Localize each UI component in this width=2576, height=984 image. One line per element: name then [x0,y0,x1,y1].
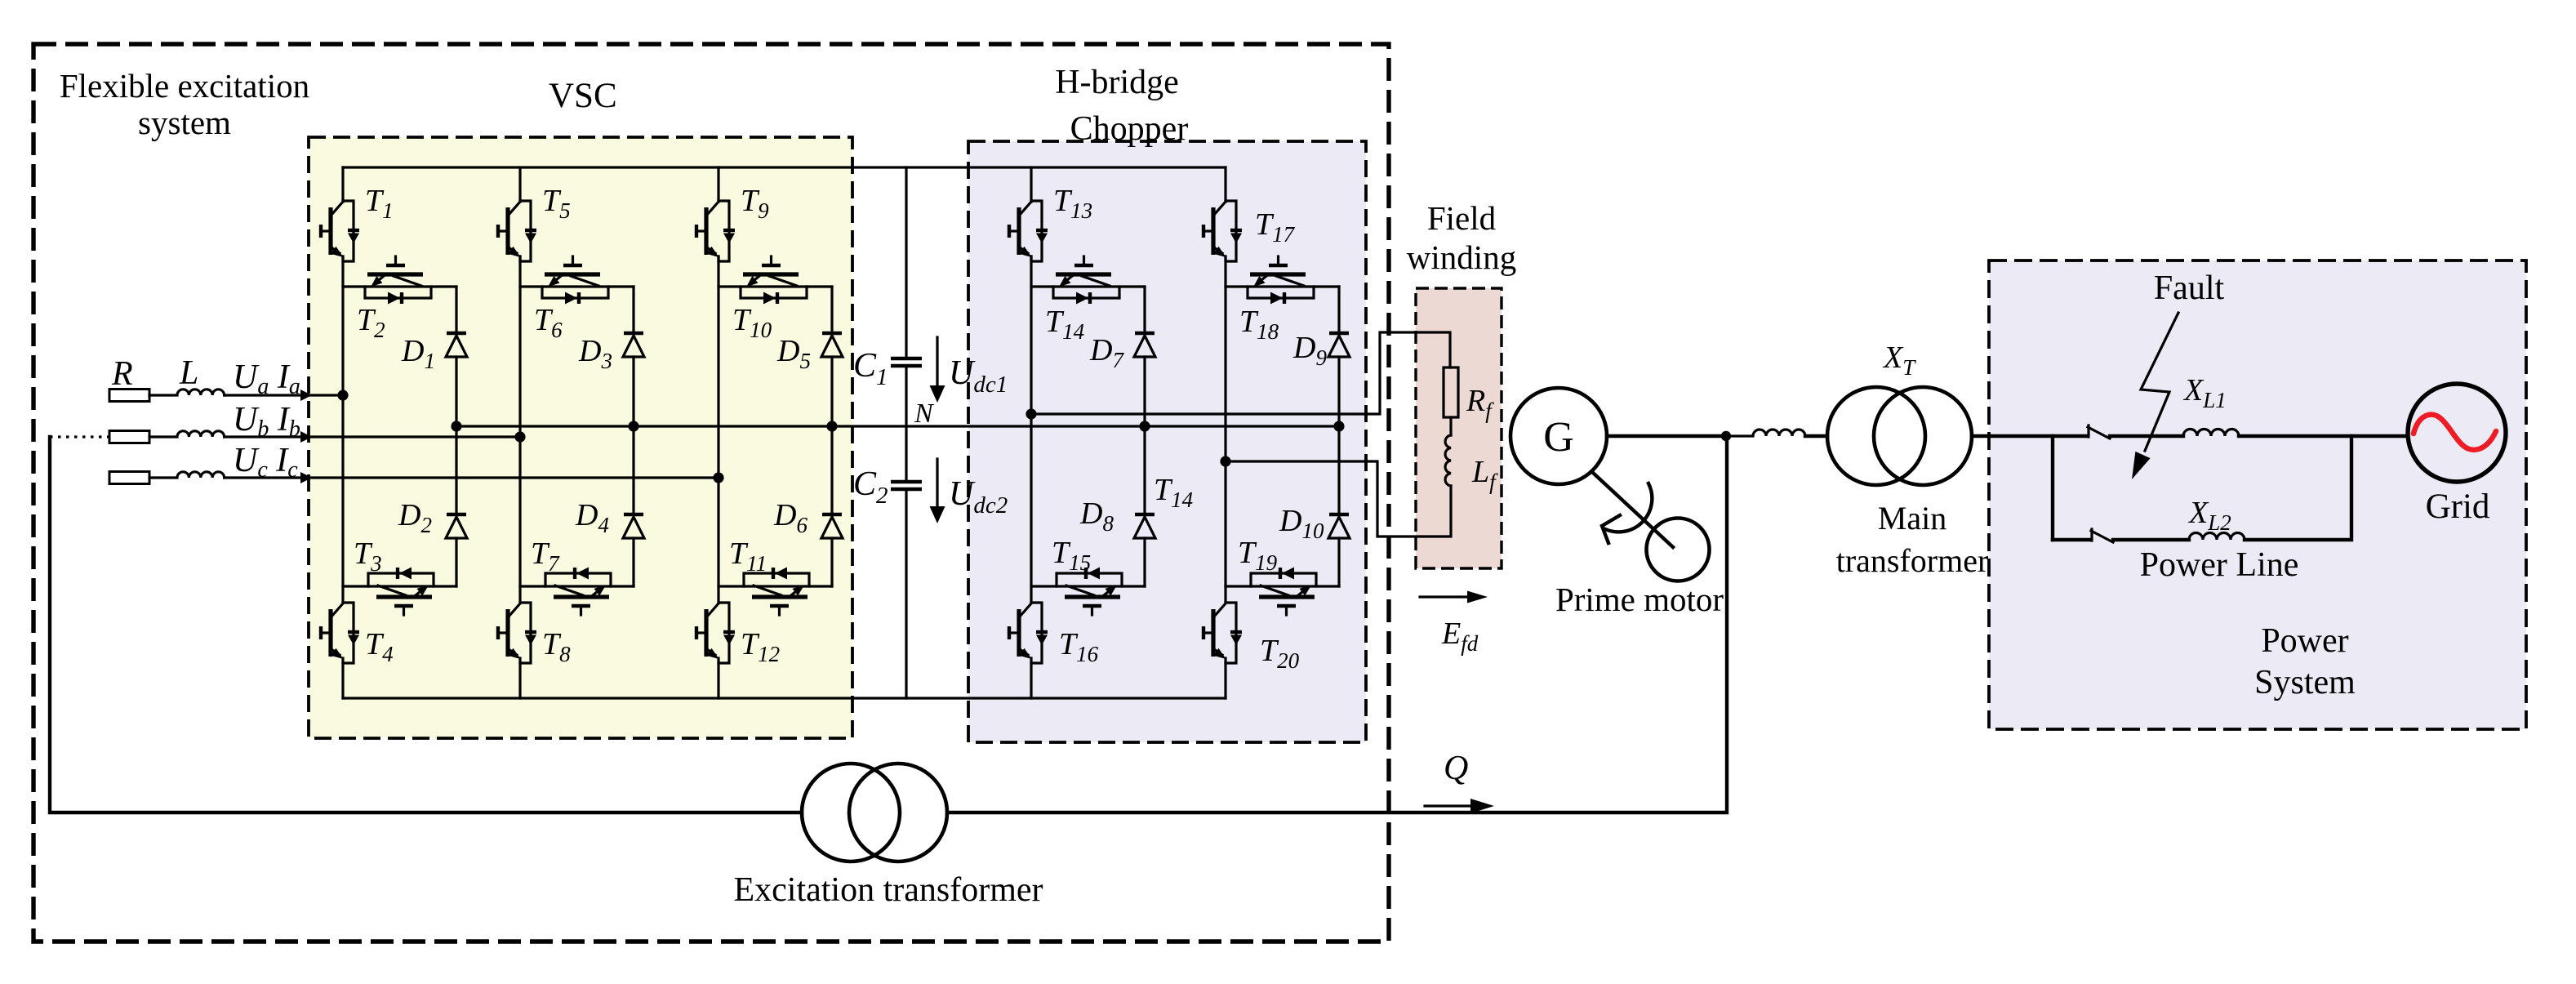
node phase b junction [514,431,525,442]
switch upper [2088,425,2110,439]
prime motor circle [1647,519,1710,581]
H-bridge Chopper box [968,141,1366,742]
wire top DC rail [343,166,1226,168]
diode D7 [1134,333,1155,357]
excitation transformer circle left [802,764,900,862]
svg-text:Grid: Grid [2426,488,2490,526]
diode D10 [1328,514,1350,538]
arrow Efd [1420,595,1469,598]
wire G output [1607,434,1726,438]
wire hleg2 clamp [1337,287,1340,586]
svg-text:Prime motor: Prime motor [1555,581,1724,618]
diode D6 [821,514,843,538]
transistor T3 [343,568,456,616]
svg-text:C2: C2 [853,465,888,509]
transistor T20 [1203,603,1242,663]
transistor T17 [1203,201,1242,261]
generator G circle [1510,388,1607,484]
capacitor C2 [891,482,922,489]
wire XL2 right [2245,436,2351,540]
svg-text:system: system [138,104,231,141]
svg-text:Uc Ic: Uc Ic [233,442,298,483]
resistor R phase a [109,390,149,402]
transistor T2 [343,256,456,305]
diode D3 [623,333,644,357]
fault lightning arrow [2141,313,2178,451]
transistor T18 [1226,256,1339,305]
node lower output junction [1220,456,1230,466]
transistor T16 [1009,603,1048,663]
rotation arrow [1605,483,1652,532]
svg-text:G: G [1543,414,1574,461]
svg-text:Main: Main [1878,500,1946,537]
arrow phase c [300,472,312,483]
svg-text:R: R [111,355,133,393]
node G output junction [1721,431,1731,441]
arrow Q [1425,804,1472,807]
dotted feedback tap [50,435,109,438]
diode D4 [623,514,644,538]
svg-text:L: L [179,354,198,392]
diode D5 [821,333,843,357]
wire capacitor rail [905,167,907,698]
node upper output junction [1026,408,1036,419]
wire bottom DC rail [343,697,1226,699]
transistor T15 [1031,568,1145,616]
transistor T13 [1009,201,1048,261]
inductor L phase a [149,390,225,395]
main transformer circle left [1827,387,1925,485]
resistor Rf [1444,367,1458,417]
arrow Udc2 [936,459,938,509]
diode D8 [1134,514,1155,538]
diode D2 [446,514,467,538]
svg-text:Efd: Efd [1441,617,1479,656]
resistor R phase b [109,431,149,443]
node phase c junction [713,472,723,483]
svg-text:XT: XT [1882,341,1916,380]
wire XL1 left [2110,434,2183,438]
svg-text:N: N [914,398,935,429]
svg-text:Flexible excitation: Flexible excitation [60,67,309,105]
node hleg2 clamp N junction [1333,421,1344,431]
svg-text:Power Line: Power Line [2140,546,2299,584]
wire leg2 clamp [632,287,634,586]
wire lower branch left [2053,538,2090,541]
VSC box [309,137,852,738]
transistor T5 [498,201,536,261]
node leg3 clamp N junction [826,421,837,431]
transistor T1 [321,201,359,261]
transistor T19 [1226,568,1339,616]
capacitor C1 [891,358,922,366]
Flexible excitation system outer box [33,44,1389,942]
wire leg2 rail [518,167,521,698]
transistor T11 [719,568,832,616]
wire hleg1 clamp [1143,287,1146,586]
transistor T14 [1031,256,1145,305]
resistor R phase c [109,472,149,484]
transistor T7 [520,568,634,616]
arrow phase b [300,431,312,443]
inductor Lf [1445,435,1451,486]
node leg2 clamp N junction [628,421,638,431]
switch lower [2091,529,2113,542]
excitation transformer circle right [849,764,947,862]
svg-text:Q: Q [1444,750,1468,787]
svg-text:Fault: Fault [2154,269,2225,307]
wire lower output [1226,461,1451,537]
inductor generator series [1726,430,1805,436]
wire leg1 rail [341,167,344,698]
wire leg3 rail [717,167,719,698]
diode D9 [1328,333,1350,357]
wire phase c [225,476,719,479]
wire hleg2 rail [1224,167,1226,698]
grid source circle [2408,384,2506,482]
inductor L phase c [149,472,225,478]
transistor T10 [719,256,832,305]
inductor L phase b [149,431,225,437]
svg-text:H-bridge: H-bridge [1055,64,1179,101]
wire excitation output [947,436,1727,813]
wire XL2 left [2113,538,2189,541]
wire XL1 right to grid [2239,434,2408,438]
svg-text:VSC: VSC [549,77,617,115]
svg-text:Ub Ib: Ub Ib [233,401,300,442]
wire feedback left drop [50,437,802,813]
svg-text:transformer: transformer [1836,542,1989,579]
transistor T9 [696,201,735,261]
arrow Udc1 [936,337,938,388]
inductor XL2 [2189,533,2245,541]
shaft line [1592,472,1673,547]
transistor T12 [696,603,735,663]
wire inductor to transformer [1805,434,1827,438]
diode D1 [446,333,467,357]
wire phase a [225,394,343,396]
svg-text:Excitation transformer: Excitation transformer [733,871,1043,909]
inductor XL1 [2183,430,2239,437]
transistor T6 [520,256,634,305]
Field winding box [1416,288,1502,568]
grid sine wave [2414,415,2496,450]
svg-text:Field: Field [1427,199,1496,237]
wire leg1 clamp [455,287,457,586]
main transformer circle right [1874,387,1972,485]
svg-text:Chopper: Chopper [1070,110,1189,148]
svg-text:Power: Power [2261,622,2348,660]
Power System box [1989,260,2526,729]
svg-text:C1: C1 [853,347,888,390]
wire Rf to Lf [1449,417,1452,435]
wire hleg1 rail [1030,167,1032,698]
node hleg1 clamp N junction [1139,421,1150,431]
node phase a junction [337,390,348,400]
wire leg3 clamp [830,287,833,586]
svg-text:System: System [2254,664,2356,701]
svg-text:Ua Ia: Ua Ia [233,358,300,399]
wire upper output [1031,332,1450,414]
node line split junction [2051,436,2054,540]
wire phase b [225,435,520,438]
transistor T8 [498,603,536,663]
transistor T4 [321,603,359,663]
arrow phase a [300,390,312,401]
wire neutral N line [456,425,1339,427]
svg-text:winding: winding [1407,238,1516,276]
node leg1 clamp N junction [451,421,461,431]
wire transformer to power system [1972,434,2087,438]
